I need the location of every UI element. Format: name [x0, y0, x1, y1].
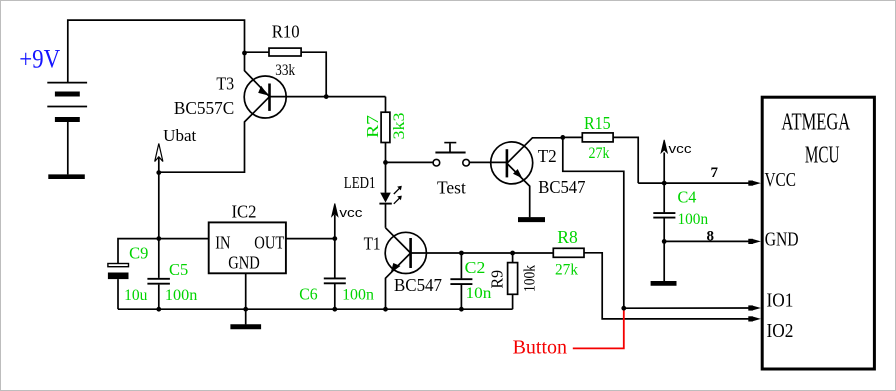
wire C4 bottom — [663, 218, 665, 241]
wire T2 collector — [507, 138, 563, 164]
svg-text:100k: 100k — [522, 265, 539, 292]
wire ground rail — [118, 308, 513, 310]
node R7/LED/button — [383, 160, 388, 165]
wire C5 top — [158, 239, 160, 278]
node +9V/R10/T3e — [242, 51, 247, 56]
svg-text:27k: 27k — [555, 261, 578, 278]
node T2c/R15 — [560, 135, 565, 140]
node R9 top — [510, 251, 515, 256]
transistor T1 — [385, 232, 426, 273]
node GND/C4 — [662, 239, 667, 244]
wire button to T2 base — [469, 161, 507, 163]
svg-text:C4: C4 — [678, 188, 697, 207]
node rail C6 — [332, 307, 337, 312]
svg-text:100n: 100n — [678, 211, 709, 228]
svg-text:IO1: IO1 — [767, 291, 794, 312]
wire R15 right to VCC line — [613, 137, 638, 183]
svg-text:100n: 100n — [165, 287, 197, 304]
resistor R7 — [381, 112, 390, 142]
wire Ubat stem — [158, 158, 160, 173]
wire LED anode — [385, 162, 387, 192]
svg-text:T1: T1 — [364, 233, 381, 253]
resistor R15 — [582, 133, 613, 142]
svg-text:C9: C9 — [129, 243, 148, 262]
svg-text:vcc: vcc — [339, 205, 363, 220]
wire T1 collector diagonal — [386, 228, 411, 253]
svg-text:IO2: IO2 — [767, 321, 794, 342]
battery B1 +9V — [47, 83, 87, 175]
svg-text:IN: IN — [215, 232, 230, 252]
MCU box ATMEGA — [762, 97, 874, 369]
capacitor C2 — [450, 279, 472, 284]
capacitor C5 — [147, 279, 170, 284]
wire C2 bottom — [460, 285, 462, 309]
wire C5 bottom — [158, 285, 160, 310]
transistor T2 — [491, 142, 533, 184]
svg-text:Test: Test — [437, 178, 466, 198]
capacitor C4 — [653, 213, 675, 218]
ground (battery) — [48, 174, 85, 179]
pin arrow GND — [748, 239, 753, 244]
svg-text:R8: R8 — [557, 227, 578, 247]
node OUT/vcc — [332, 236, 337, 241]
svg-text:R15: R15 — [584, 113, 611, 133]
svg-text:vcc: vcc — [669, 141, 693, 156]
wire R10 right — [301, 52, 326, 96]
vcc arrow (C6) — [332, 204, 338, 217]
wire C6 bottom — [334, 284, 336, 309]
ground (T2) — [518, 217, 545, 222]
pin arrow IO1 — [748, 305, 753, 310]
wire C4 ground stem — [663, 241, 665, 281]
wire node R7/LED/button — [386, 161, 434, 163]
node IO1/red — [621, 306, 626, 311]
wire T3 emitter tail — [245, 53, 270, 97]
wire Button (red) — [573, 310, 624, 349]
wire C6 top — [334, 239, 336, 278]
Ubat arrow — [155, 144, 163, 162]
svg-text:R7: R7 — [363, 114, 382, 138]
node rail T1 — [383, 307, 388, 312]
pushbutton Test — [433, 143, 469, 166]
svg-text:C5: C5 — [169, 260, 188, 279]
svg-text:IC2: IC2 — [232, 201, 257, 221]
wire VCC pin line — [638, 182, 751, 184]
wire GND pin line — [664, 240, 751, 242]
wire T3 base line — [270, 96, 386, 98]
resistor R10 — [269, 48, 301, 56]
wire T2 emitter — [507, 163, 530, 217]
node R10/base — [324, 94, 329, 99]
wire C9 branch — [118, 239, 159, 264]
svg-text:GND: GND — [228, 253, 259, 273]
svg-text:Ubat: Ubat — [163, 126, 196, 145]
wire R9 bottom — [512, 294, 514, 309]
svg-text:R10: R10 — [272, 21, 300, 41]
svg-text:Button: Button — [513, 337, 567, 359]
capacitor C6 — [324, 278, 346, 283]
svg-text:ATMEGA: ATMEGA — [781, 110, 850, 136]
resistor R9 — [508, 263, 518, 295]
transistor T3 — [244, 76, 286, 118]
node IN — [156, 236, 161, 241]
svg-text:T2: T2 — [538, 146, 557, 166]
wire IC2 OUT — [286, 238, 335, 240]
wire vcc arrow stem at C6 — [334, 215, 336, 239]
ground (C4) — [651, 281, 677, 286]
svg-text:10u: 10u — [124, 287, 147, 304]
node Ubat — [156, 170, 161, 175]
svg-text:R9: R9 — [488, 270, 507, 289]
wire T1 base line — [411, 252, 554, 254]
svg-text:OUT: OUT — [254, 232, 284, 252]
vcc arrow (C4) — [661, 140, 667, 153]
svg-text:GND: GND — [765, 230, 799, 251]
svg-text:27k: 27k — [589, 145, 610, 162]
wire R7 top — [385, 97, 387, 113]
wire Ubat node down — [158, 173, 160, 239]
svg-text:BC547: BC547 — [538, 177, 585, 197]
resistor R8 — [553, 248, 584, 257]
svg-text:T3: T3 — [216, 74, 234, 94]
svg-text:33k: 33k — [275, 62, 295, 79]
node VCC/C4 — [662, 181, 667, 186]
pin arrow VCC — [748, 181, 753, 186]
wire IO1 branch — [563, 137, 624, 308]
svg-text:+9V: +9V — [19, 45, 60, 74]
node rail C2 — [459, 307, 464, 312]
svg-text:7: 7 — [711, 165, 719, 181]
wire top rail +9V — [68, 20, 245, 83]
svg-text:8: 8 — [707, 229, 715, 245]
IC2 regulator — [209, 222, 286, 273]
svg-text:C2: C2 — [465, 258, 486, 277]
wire IO1 pin line — [624, 307, 751, 309]
wire LED cathode to T1 collector — [385, 205, 387, 228]
pin arrow IO2 — [748, 316, 753, 321]
wire R10 left — [245, 51, 270, 53]
node C2 top — [459, 251, 464, 256]
wire T3 collector to Ubat node — [159, 97, 270, 173]
ground (IC2) — [230, 324, 261, 329]
wire T1 emitter — [386, 253, 411, 309]
svg-text:MCU: MCU — [805, 143, 840, 169]
svg-text:C6: C6 — [299, 284, 317, 303]
wire IC2 IN — [159, 238, 209, 240]
wire vcc arrow stem at C4 — [663, 153, 665, 184]
node rail IC2 — [243, 307, 248, 312]
svg-text:3k3: 3k3 — [391, 113, 408, 140]
svg-text:LED1: LED1 — [344, 173, 376, 192]
wire IC2 GND pin — [245, 273, 247, 324]
LED LED1 — [379, 186, 401, 204]
wire R7 bottom — [385, 143, 387, 163]
wire R8 right to IO2 — [584, 253, 751, 319]
svg-text:VCC: VCC — [765, 170, 797, 191]
svg-text:BC547: BC547 — [394, 275, 442, 295]
svg-text:100n: 100n — [342, 286, 374, 303]
capacitor C9 — [108, 264, 129, 280]
svg-text:BC557C: BC557C — [174, 98, 234, 118]
wire R9 top — [512, 253, 514, 263]
wire C2 top — [460, 253, 462, 278]
wire C4 top — [663, 183, 665, 212]
wire C9 bottom — [117, 279, 119, 309]
wire R15 left — [563, 136, 583, 138]
node rail C5 — [156, 307, 161, 312]
